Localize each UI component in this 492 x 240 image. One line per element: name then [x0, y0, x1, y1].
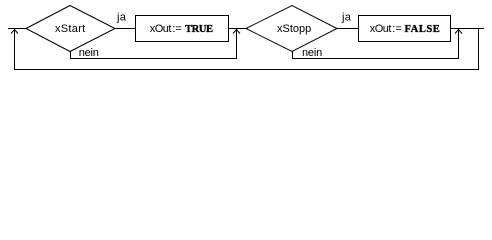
wire nein1 horizontal [70, 58, 237, 60]
wire diamond1 bottom riser [70, 51, 72, 59]
wire ja2 line [337, 28, 358, 30]
svg-text:nein: nein [302, 47, 322, 59]
svg-text:FALSE: FALSE [405, 24, 441, 35]
svg-text::=: := [172, 23, 181, 35]
svg-text:nein: nein [79, 47, 99, 59]
wire entry line [8, 28, 26, 30]
wire diamond2 bottom riser [292, 51, 294, 59]
box xOut:=FALSE border [358, 15, 451, 17]
wire loop right vertical [478, 28, 480, 70]
diamond xStart [26, 6, 115, 52]
diamond xStopp [246, 6, 337, 52]
svg-text:xOut: xOut [150, 23, 172, 35]
svg-text:xStart: xStart [55, 23, 86, 35]
svg-text:xStopp: xStopp [277, 23, 311, 35]
wire ja1 line [115, 28, 135, 30]
wire nein2 riser up [458, 29, 460, 59]
svg-text::=: := [392, 23, 401, 35]
arrowhead nein1 [233, 30, 240, 34]
svg-text:ja: ja [341, 12, 352, 24]
wire out2 line [450, 28, 484, 30]
arrowhead nein2 [455, 30, 462, 34]
arrowhead left loop [11, 30, 18, 34]
svg-text:TRUE: TRUE [185, 24, 213, 35]
wire loop left vertical [14, 29, 16, 70]
box xOut:=TRUE border [135, 15, 229, 17]
wire out1 line [228, 28, 246, 30]
wire loop bottom line [14, 69, 479, 71]
wire nein1 riser up [236, 29, 238, 59]
svg-text:xOut: xOut [370, 23, 392, 35]
wire nein2 horizontal [292, 58, 459, 60]
svg-text:ja: ja [116, 12, 127, 24]
